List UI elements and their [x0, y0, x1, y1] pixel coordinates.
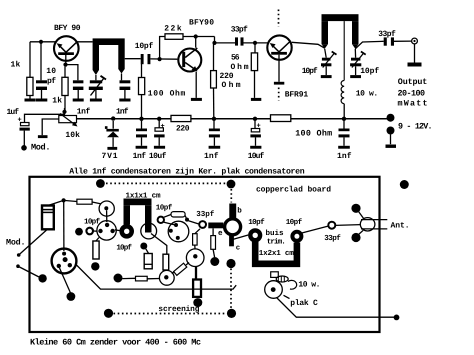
- ground bar under R5: [251, 98, 261, 101]
- capacitor C10 1nf: [141, 121, 143, 129]
- wire electro to Mod dot: [19, 230, 47, 255]
- plak C circle: [265, 281, 283, 299]
- svg-text:e: e: [218, 230, 223, 238]
- wire Q2 emitter to ground: [195, 72, 197, 98]
- wire Q1 to L1: [76, 41, 93, 43]
- wire to 33pf ring: [189, 221, 199, 224]
- wire C5 to Q2 base: [150, 58, 177, 60]
- svg-text:33pf: 33pf: [231, 25, 248, 34]
- ground bar under R1: [25, 99, 36, 102]
- narrow box above Q2 pcb: [193, 234, 198, 245]
- wire Q1pcb to pad below: [60, 268, 71, 293]
- wire between circles: [106, 210, 108, 222]
- resistor R2 1k: [62, 77, 68, 95]
- inductor L2 thick U: [322, 14, 359, 21]
- wire Q3 collector to L2: [292, 42, 325, 48]
- ground bar under C3: [90, 99, 102, 102]
- svg-text:33pf: 33pf: [196, 210, 214, 219]
- svg-text:20-100: 20-100: [398, 89, 426, 99]
- svg-text:10pf: 10pf: [286, 218, 303, 227]
- svg-text:Ohm: Ohm: [231, 63, 249, 72]
- svg-text:+: +: [18, 117, 22, 125]
- transistor circle with lead dots: [168, 221, 189, 242]
- antenna pads: [351, 204, 360, 213]
- svg-text:10pf: 10pf: [116, 243, 132, 252]
- svg-text:pf: pf: [47, 77, 56, 86]
- pad dot under ring: [140, 243, 147, 250]
- ring 33pf: [199, 221, 206, 228]
- pad dot under resistor: [91, 262, 99, 270]
- trimmer C3: [95, 75, 97, 80]
- wire left vertical to R1: [29, 42, 31, 78]
- svg-text:220: 220: [220, 72, 234, 81]
- svg-text:Kleine 60 Cm zender voor 400 -: Kleine 60 Cm zender voor 400 - 600 Mc: [30, 337, 201, 347]
- thin circle around right leg: [141, 223, 157, 239]
- transistor Q1 PCB big circle: [52, 249, 77, 274]
- ground bar under C2: [73, 99, 84, 102]
- svg-text:copperclad board: copperclad board: [256, 186, 331, 195]
- zener D1 7V1: [112, 121, 114, 129]
- node junction left: [62, 198, 66, 202]
- svg-text:1nf: 1nf: [116, 108, 129, 117]
- dotted link down to b stub: [230, 189, 232, 203]
- capsule resistor: [171, 212, 185, 217]
- PCB board outline: [30, 177, 380, 332]
- transistor Q2 PCB circle: [186, 249, 204, 267]
- svg-text:1x2x1 cm: 1x2x1 cm: [259, 249, 294, 258]
- resistor R4 22k feedback: [160, 37, 165, 60]
- resistor PCB vertical 1: [144, 254, 152, 269]
- svg-text:33pf: 33pf: [324, 234, 341, 243]
- wire junction down to Q transistor: [63, 200, 65, 251]
- svg-text:100 Ohm: 100 Ohm: [295, 129, 332, 139]
- trimmer C7: [325, 49, 327, 58]
- thick stub b: [229, 204, 236, 219]
- svg-text:Alle 1nf condensatoren zijn Ke: Alle 1nf condensatoren zijn Ker. plak co…: [69, 166, 305, 176]
- pad dot: [38, 274, 46, 282]
- resistor R6 220 Ohm: [213, 43, 215, 71]
- narrow box 2 and pad: [211, 236, 216, 250]
- tilted resistor: [174, 263, 187, 275]
- thick tail c: [229, 235, 234, 246]
- svg-text:1x1x1 cm: 1x1x1 cm: [126, 192, 161, 200]
- thick pad ring: [122, 226, 132, 236]
- svg-text:trim.: trim.: [267, 237, 286, 246]
- svg-text:buis: buis: [266, 229, 284, 238]
- svg-text:1k: 1k: [11, 61, 21, 70]
- svg-text:1k: 1k: [52, 97, 62, 106]
- capacitor C6 33pf: [235, 37, 238, 45]
- small ring pad: [158, 217, 164, 223]
- svg-text:Mod.: Mod.: [6, 238, 26, 248]
- svg-text:1nf: 1nf: [337, 152, 352, 161]
- coil circle mid: [159, 270, 174, 285]
- wire Q1 emitter down: [65, 55, 67, 65]
- coil 10w on PCB: [271, 272, 279, 278]
- svg-text:c: c: [236, 245, 240, 253]
- svg-text:10pf: 10pf: [156, 204, 173, 213]
- ground bar Q2 emitter: [191, 98, 202, 101]
- svg-text:Ohm: Ohm: [222, 81, 241, 90]
- svg-text:Ant.: Ant.: [391, 222, 410, 231]
- capacitor C2: [73, 80, 84, 83]
- pad dot below: [193, 298, 202, 307]
- wire emitter to C2: [66, 65, 78, 81]
- wire L2 to C9: [355, 41, 383, 49]
- svg-text:+: +: [161, 123, 165, 131]
- screening dotted lines: [226, 259, 235, 268]
- resistor PCB horizontal: [77, 199, 92, 204]
- dotted screen line below Q3 ground: [278, 88, 280, 101]
- capacitor C15 1uf electrolytic: [25, 114, 65, 122]
- svg-text:100 Ohm: 100 Ohm: [148, 90, 186, 99]
- ground bar under C8: [350, 75, 361, 78]
- pad dot top left: [96, 179, 105, 188]
- inductor 1x2x1 thick U loop: [255, 242, 297, 264]
- svg-text:22k: 22k: [164, 25, 182, 34]
- ground bar battery: [386, 145, 397, 148]
- svg-text:Mod.: Mod.: [31, 142, 51, 152]
- wire top-left horizontal to Q1: [30, 41, 57, 43]
- resistor R3 100 Ohm: [141, 64, 143, 78]
- svg-text:1nf: 1nf: [133, 152, 147, 161]
- node junction base Q2: [158, 57, 162, 61]
- svg-text:33pf: 33pf: [378, 30, 396, 39]
- transistor Q2 BFY90: [178, 49, 201, 72]
- inductor 1x1x1 thick U loop: [124, 199, 152, 206]
- trimmer C8: [354, 49, 356, 58]
- capacitor C11 10uf: [158, 121, 160, 128]
- wire junction to electrolytic: [48, 200, 64, 205]
- svg-text:10: 10: [46, 67, 56, 76]
- coil circle top: [99, 201, 114, 216]
- svg-text:BFY90: BFY90: [189, 19, 214, 28]
- resistor R7 220 in rail: [171, 115, 191, 121]
- node junction emitter: [63, 63, 67, 67]
- node junctions on rail: [111, 116, 115, 120]
- wire circle2 to thick ring: [115, 229, 120, 232]
- svg-text:56: 56: [231, 54, 240, 63]
- output terminal: [412, 38, 418, 44]
- transistor Q3 BFR91: [267, 35, 291, 59]
- svg-text:220: 220: [176, 125, 190, 134]
- capacitor C13 10uf: [254, 121, 256, 129]
- svg-text:10pf: 10pf: [248, 218, 265, 227]
- svg-text:10k: 10k: [65, 131, 80, 140]
- Mod. input dots: [17, 253, 21, 257]
- resistor R5 56 Ohm: [254, 43, 256, 53]
- svg-text:10uf: 10uf: [248, 152, 265, 161]
- wire tail to trim ring: [233, 235, 248, 239]
- resistor PCB bold vertical: [193, 280, 201, 297]
- svg-text:10uf: 10uf: [149, 152, 167, 161]
- resistor R8 100 Ohm in rail: [271, 115, 291, 122]
- potentiometer R9 10k: [62, 110, 66, 114]
- node junction collector Q2: [194, 34, 198, 38]
- wire junction to resistor: [64, 200, 77, 201]
- BFR91 pad circle: [225, 219, 241, 235]
- resistor PCB vertical 3: [93, 241, 99, 259]
- ground bar Q3 emitter: [274, 82, 284, 85]
- pad dot top right outside board: [400, 180, 409, 189]
- wire trim right to 33pf ring: [301, 226, 328, 233]
- resistor PCB vertical 2: [163, 254, 169, 270]
- svg-text:10 w.: 10 w.: [298, 281, 320, 290]
- node junction at 41,41.8: [39, 40, 43, 44]
- node junction at 255: [253, 41, 257, 45]
- capacitor C14 1nf: [343, 121, 345, 129]
- pad dot and ring left of circle2: [75, 228, 83, 236]
- capacitor C5 10pf: [141, 54, 144, 64]
- ground bar under C4: [119, 99, 130, 102]
- svg-text:1nf: 1nf: [204, 152, 219, 161]
- tick to plak C label: [284, 295, 290, 298]
- electrolytic capacitor PCB: [42, 206, 54, 230]
- inductor L1 thick U: [93, 38, 125, 45]
- capacitor C1: [36, 80, 47, 83]
- ring 33pf output: [328, 222, 335, 229]
- svg-text:1nf: 1nf: [77, 108, 91, 117]
- svg-text:10pf: 10pf: [84, 217, 100, 226]
- wire L2 center tap down: [343, 21, 345, 80]
- svg-text:7V1: 7V1: [102, 152, 118, 161]
- svg-text:10pf: 10pf: [135, 42, 154, 51]
- svg-text:10pf: 10pf: [302, 67, 318, 76]
- ground bar under C7: [321, 75, 332, 78]
- PCB text labels: [6, 186, 410, 315]
- dotted screen line above Q3: [278, 10, 280, 27]
- capacitor C12 1nf: [213, 121, 215, 129]
- wire collector down to C6 row: [215, 37, 236, 43]
- ground bar under output: [408, 63, 422, 67]
- coil L3 10 w.: [341, 81, 344, 104]
- wire Q3 emitter: [278, 55, 280, 82]
- wire plak C to external pad: [277, 298, 397, 318]
- ground bar under C1: [36, 99, 48, 102]
- svg-text:10 w.: 10 w.: [356, 89, 379, 98]
- resistor R1 1k: [27, 77, 33, 95]
- antenna connector: [360, 218, 375, 231]
- dotted screening line top: [106, 182, 227, 184]
- node junction at C6 left: [212, 41, 216, 45]
- battery terminal dots: [387, 114, 395, 122]
- wire ring to antenna: [336, 224, 361, 227]
- svg-text:9 - 12V.: 9 - 12V.: [398, 121, 433, 131]
- trim pad ring right: [292, 232, 301, 241]
- wire Q1pcb long run right: [76, 265, 236, 290]
- transistor Q1 BFY90: [54, 36, 79, 61]
- trim pad ring left: [250, 230, 260, 240]
- ground bar pot: [38, 135, 48, 138]
- wire resistor to coil circle: [92, 202, 100, 204]
- svg-text:10pf: 10pf: [360, 67, 379, 76]
- node Mod. input dot: [21, 145, 27, 151]
- svg-text:BFR91: BFR91: [285, 91, 309, 100]
- svg-text:+: +: [257, 123, 261, 131]
- wire Mod dot to pad: [20, 267, 40, 277]
- svg-text:screening: screening: [158, 305, 199, 314]
- wire Q2 collector: [195, 37, 197, 48]
- pad dot + small resistor chain: [114, 274, 123, 283]
- wire L1 to C5: [125, 58, 141, 60]
- transistor circle 2: [97, 221, 116, 240]
- bold lead down to resistor: [195, 266, 197, 279]
- capacitor C4 1nf: [121, 74, 123, 81]
- svg-text:mWatt: mWatt: [398, 99, 428, 109]
- pad dot node b top: [227, 180, 236, 189]
- wire junction down to C1: [40, 42, 42, 81]
- capacitor C9 33pf output: [384, 37, 387, 45]
- thick bar e lead: [208, 223, 223, 229]
- svg-text:plak C: plak C: [290, 299, 318, 308]
- svg-text:Output: Output: [398, 77, 428, 87]
- svg-text:BFY 90: BFY 90: [54, 24, 81, 33]
- svg-text:b: b: [237, 207, 242, 216]
- ground bar under D1: [107, 147, 117, 150]
- supply rail: [77, 118, 391, 120]
